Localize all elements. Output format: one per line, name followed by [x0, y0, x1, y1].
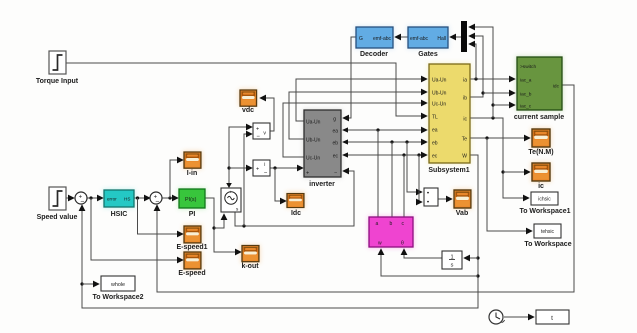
svg-text:W: W: [462, 153, 467, 159]
voltage measurement block: [253, 123, 270, 140]
svg-text:Ua-Un: Ua-Un: [432, 77, 447, 83]
node: eb tap for Vab measurement: [405, 140, 408, 143]
wire: ec to Vab measurement input 2: [419, 155, 422, 202]
sum junction Sum2: [150, 192, 162, 206]
clock block: [489, 310, 505, 324]
wire: eb rail between inverter and Subsystem1: [342, 139, 427, 144]
svg-text:I-in: I-in: [187, 170, 198, 177]
svg-text:Torque Input: Torque Input: [36, 78, 79, 85]
svg-text:Gates: Gates: [418, 51, 438, 58]
node: ia branch to mux: [474, 77, 477, 80]
wire: ea rail between inverter and Subsystem1: [342, 127, 427, 132]
wire: W to integrator input: [464, 257, 478, 259]
wire: Sum1 to HSIC: [87, 197, 104, 199]
node: W branch to whole workspace: [80, 282, 83, 285]
mux block: [461, 21, 467, 52]
svg-text:w: w: [378, 240, 382, 246]
wire: plus rail to current measurement plus input: [229, 167, 252, 169]
svg-text:Subsystem1: Subsystem1: [428, 167, 469, 174]
wire: dc current to Idc scope: [275, 168, 286, 201]
svg-text:ic: ic: [463, 116, 467, 122]
node: W branch to emf block: [476, 274, 479, 277]
wire: inverter Ub-Un to Subsystem1 Ub-Un: [289, 92, 427, 139]
sum junction Sum1: [75, 192, 87, 206]
svg-text:error: error: [107, 197, 117, 202]
svg-text:Te: Te: [462, 136, 468, 142]
wire: emf block port b to eb rail: [391, 142, 393, 217]
node: ic branch to ic scope: [501, 170, 504, 173]
wire: source minus rail to inverter minus: [235, 171, 354, 226]
step source Torque Input: [36, 51, 79, 85]
wire: ib to mux input 2: [469, 36, 483, 97]
node: ic branch to current sample: [491, 103, 494, 106]
svg-text:iac_a: iac_a: [520, 77, 532, 83]
svg-text:+: +: [229, 189, 232, 194]
svg-text:emf-abc: emf-abc: [373, 36, 392, 42]
scope Vab: [454, 190, 471, 217]
svg-text:+: +: [306, 170, 309, 176]
svg-text:HSIC: HSIC: [111, 211, 128, 218]
node: ec tap: [402, 153, 405, 156]
wire: source plus rail to voltage measurement plus input: [229, 127, 252, 186]
subsystem block current sample: [514, 57, 564, 121]
step source Speed value: [37, 187, 78, 221]
svg-text:Uc-Un: Uc-Un: [306, 155, 320, 161]
wire: integrator output to emf block theta input: [404, 249, 442, 258]
wire: Gates to Decoder: [395, 36, 408, 38]
wire: Te to tehsic workspace block: [487, 138, 532, 231]
wire: speed error to E-speed scope: [91, 198, 183, 260]
wire: W to whole workspace block: [82, 283, 99, 285]
svg-text:−: −: [334, 170, 337, 176]
node: minus rail branch to voltage measurement: [242, 224, 245, 227]
workspace block t: [536, 310, 569, 324]
svg-text:current sample: current sample: [514, 114, 564, 121]
node: ea tap: [376, 128, 379, 131]
svg-text:θ: θ: [401, 240, 404, 246]
svg-text:g: g: [333, 116, 336, 122]
svg-text:To Workspace2: To Workspace2: [92, 294, 143, 301]
svg-text:G: G: [359, 36, 363, 42]
svg-text:+: +: [256, 167, 259, 173]
svg-text:To Workspace: To Workspace: [524, 241, 571, 248]
wire: W feedback to Sum1: [82, 155, 478, 308]
svg-text:ichsic: ichsic: [538, 197, 551, 203]
controller block HSIC: [104, 190, 134, 218]
node: Te branch to tehsic: [485, 136, 488, 139]
node: plus rail branch to current measurement: [227, 166, 230, 169]
wire: Clock to t block: [504, 316, 534, 318]
wire: ib to current sample iac_b: [483, 92, 515, 94]
arrow: plus rail into source top: [226, 183, 232, 188]
wire: ec rail between inverter and Subsystem1: [342, 152, 427, 157]
wire: HSIC output to E-speed1 scope: [138, 198, 184, 234]
svg-text:iac_b: iac_b: [520, 91, 532, 97]
wire: ia to current sample iac_a: [470, 78, 515, 80]
wire: idc feedback to Sum2: [157, 85, 574, 292]
svg-text:iac_c: iac_c: [520, 103, 532, 109]
emf subsystem block (magenta): [369, 217, 413, 247]
node: branch of current command to I-in: [168, 196, 171, 199]
svg-text:ib: ib: [463, 95, 467, 101]
wire: current measurement to inverter plus: [270, 167, 303, 169]
svg-text:E-speed: E-speed: [178, 270, 205, 277]
scope vdc: [240, 90, 257, 114]
svg-text:b: b: [390, 221, 393, 227]
svg-text:Uc-Un: Uc-Un: [432, 101, 446, 107]
workspace block tehsic: [524, 224, 571, 248]
svg-text:Speed value: Speed value: [37, 214, 78, 221]
controlled voltage source U1: [221, 188, 241, 212]
integrator block 1/s: [442, 251, 462, 269]
svg-text:E-speed1: E-speed1: [176, 244, 207, 251]
svg-text:Ub-Un: Ub-Un: [306, 137, 321, 143]
wire: current command to I-in scope: [170, 160, 183, 198]
svg-text:PI: PI: [189, 211, 196, 218]
scope E-speed1: [176, 226, 207, 251]
subsystem block Subsystem1: [428, 64, 470, 174]
wire: voltage measurement v output to vdc scope: [260, 98, 274, 131]
node: ib branch to current sample: [481, 91, 484, 94]
node: branch of HSIC output to E-speed1: [136, 196, 139, 199]
svg-text:i: i: [264, 162, 265, 168]
svg-text:emf-abc: emf-abc: [410, 36, 429, 42]
node: branch of PI output to source s input: [212, 226, 215, 229]
node: ic branch to mux: [491, 116, 494, 119]
svg-text:s: s: [451, 262, 454, 268]
scope I-in: [184, 152, 201, 177]
node: W branch to integrator: [476, 256, 479, 259]
wire: inverter Ua-Un to Subsystem1 Ua-Un: [296, 79, 427, 121]
scope Te(N.M): [528, 129, 553, 156]
svg-text:Ua-Un: Ua-Un: [306, 119, 321, 125]
svg-text:ic: ic: [538, 183, 544, 190]
scope E-speed: [178, 252, 205, 277]
node: eb tap: [390, 140, 393, 143]
svg-text:ea: ea: [332, 128, 338, 134]
workspace block whole: [92, 276, 143, 301]
controller block PI: [179, 189, 205, 218]
svg-text:−: −: [80, 199, 84, 206]
svg-text:eb: eb: [432, 140, 438, 146]
inverter block: [304, 110, 341, 188]
wire: minus rail to voltage measurement minus input: [244, 134, 252, 226]
wire: PI output down to k-out scope: [205, 198, 241, 252]
node: ec tap for Vab measurement: [417, 153, 420, 156]
svg-text:whole: whole: [110, 282, 125, 288]
wire: PI output to controlled source s input: [214, 214, 224, 228]
wire: inverter Uc-Un to Subsystem1 Uc-Un: [283, 103, 427, 157]
voltage measurement block for Vab: [424, 188, 438, 206]
svg-text:Decoder: Decoder: [360, 51, 388, 58]
svg-text:To Workspace1: To Workspace1: [519, 208, 570, 215]
wire: Mux to Gates Hall: [450, 36, 461, 38]
svg-text:tehsic: tehsic: [541, 229, 555, 235]
node: branch of dc current to Idc scope: [273, 166, 276, 169]
wire: ic to mux input 1: [469, 27, 493, 118]
svg-text:−: −: [256, 134, 260, 140]
scope k-out: [241, 246, 259, 271]
svg-text:TL: TL: [432, 114, 438, 120]
svg-text:Te(N.M): Te(N.M): [528, 149, 553, 156]
wire: Torque Input to Subsystem1 TL: [66, 63, 427, 116]
svg-text:Idc: Idc: [291, 210, 301, 217]
workspace block ichsic: [519, 192, 570, 215]
scope ic: [532, 163, 550, 190]
svg-text:idc: idc: [553, 83, 560, 89]
svg-text:Hall: Hall: [437, 36, 446, 42]
wire: emf block port a to ea rail: [377, 130, 379, 217]
wire: eb to Vab measurement input 1: [407, 142, 422, 192]
wire: W to emf block speed input: [381, 249, 478, 276]
scope Idc: [287, 194, 304, 218]
svg-text:ec: ec: [333, 153, 339, 159]
svg-text:inverter: inverter: [309, 181, 335, 188]
wire: HSIC to Sum2: [134, 197, 150, 199]
svg-text:Vab: Vab: [456, 210, 468, 217]
wire: Decoder G to inverter g: [343, 37, 356, 118]
current measurement block: [253, 160, 270, 177]
wire: Sum2 to PI: [162, 197, 179, 199]
svg-text:−: −: [264, 171, 268, 177]
wire: Speed value to Sum1: [66, 197, 74, 199]
svg-text:+: +: [256, 126, 259, 132]
decoder block Decoder: [356, 27, 393, 58]
wire: emf block port c to ec rail: [403, 155, 405, 217]
node: branch of speed error to E-speed: [89, 196, 92, 199]
glow underlays (jpeg colour bleed): [103, 26, 563, 270]
gates block Gates: [408, 27, 448, 58]
wire: Vab measurement to Vab scope: [438, 198, 452, 200]
svg-text:k-out: k-out: [241, 263, 259, 270]
svg-text:ea: ea: [432, 127, 438, 133]
svg-text:eb: eb: [332, 140, 338, 146]
svg-text:v: v: [263, 131, 266, 137]
svg-text:PI(s): PI(s): [185, 197, 197, 203]
svg-text:vdc: vdc: [242, 107, 254, 114]
svg-text:a: a: [376, 221, 379, 227]
wire: ia to mux input 3: [469, 44, 476, 79]
wire: ic to ic scope: [503, 171, 530, 173]
wire: ic down to ichsic workspace block: [470, 118, 529, 198]
svg-text:Ub-Un: Ub-Un: [432, 90, 447, 96]
svg-text:ia: ia: [463, 77, 467, 83]
svg-text:−: −: [155, 199, 159, 206]
svg-text:HS: HS: [124, 197, 130, 202]
svg-text:t: t: [551, 315, 553, 322]
wire: Te to Te scope: [470, 137, 530, 139]
wire: ic to current sample iac_c: [493, 104, 515, 106]
svg-text:˃switch: ˃switch: [520, 64, 536, 70]
svg-text:ec: ec: [432, 153, 438, 159]
